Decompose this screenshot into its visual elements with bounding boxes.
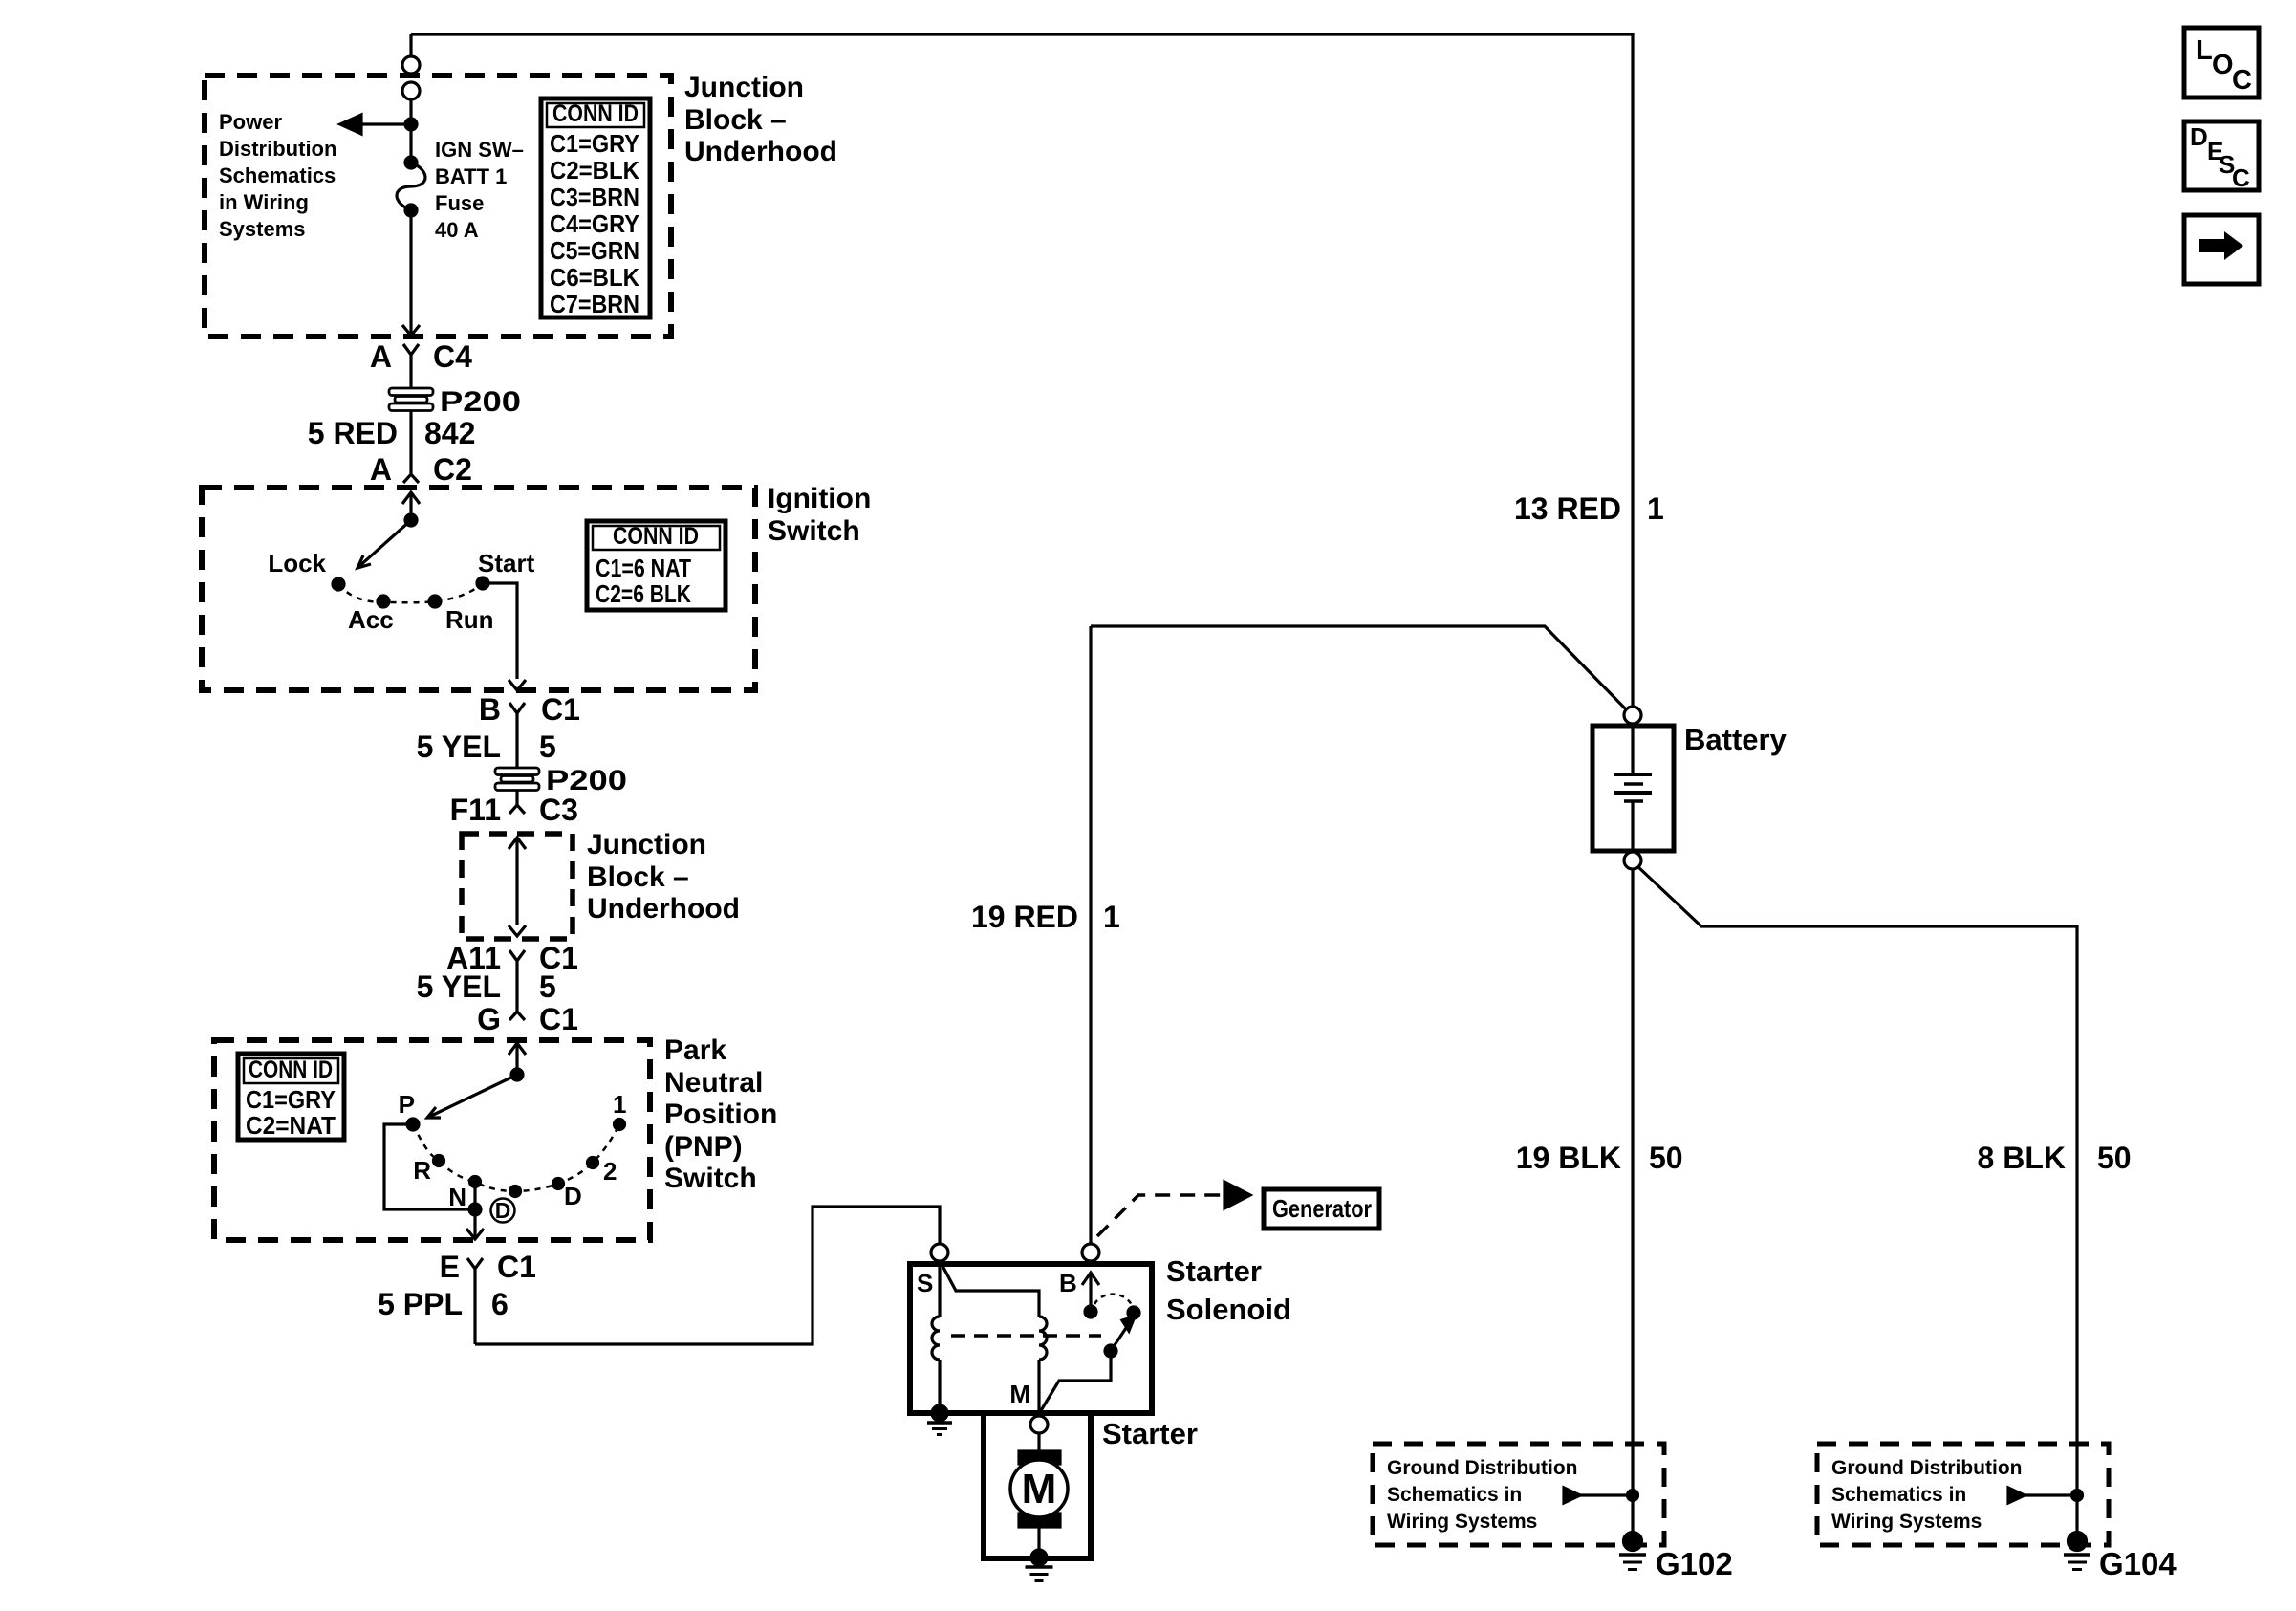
terminal B circle — [1082, 1244, 1099, 1261]
svg-text:5 PPL: 5 PPL — [378, 1287, 463, 1321]
wire: fuse to connector C4 with exit arrow — [402, 210, 420, 336]
svg-text:C: C — [2232, 163, 2250, 192]
label contact 2 — [603, 1157, 617, 1186]
svg-text:6: 6 — [491, 1287, 509, 1321]
contact 2 — [588, 1158, 598, 1168]
label Battery — [1684, 723, 1787, 756]
wire: battery negative to G102 — [1631, 869, 1634, 1534]
contact P — [407, 1119, 419, 1130]
wire: entry arrow into PNP switch — [509, 1043, 526, 1075]
CONN ID table PNP text — [246, 1056, 336, 1140]
svg-text:C1=GRY: C1=GRY — [246, 1085, 336, 1114]
label contact Lock — [268, 549, 326, 577]
label G102 — [1656, 1546, 1733, 1581]
label terminal M — [1009, 1380, 1030, 1408]
svg-text:Solenoid: Solenoid — [1166, 1293, 1291, 1326]
svg-text:in Wiring: in Wiring — [219, 190, 309, 214]
svg-text:C6=BLK: C6=BLK — [550, 263, 639, 292]
svg-text:Distribution: Distribution — [219, 137, 336, 161]
generator box — [1264, 1189, 1379, 1229]
wire: M to motor — [1037, 1433, 1040, 1452]
label ground distribution left — [1387, 1457, 1577, 1533]
svg-text:Generator: Generator — [1272, 1194, 1372, 1223]
wire: entry arrow into ignition switch — [402, 492, 420, 520]
starter ground — [1026, 1550, 1053, 1581]
label wire 5 RED 842 — [308, 416, 476, 450]
CONN ID table junction block text — [550, 100, 639, 318]
connector B C1 fork — [509, 703, 525, 769]
node: power distribution tap with arrow — [340, 115, 417, 134]
wire: motor to starter ground — [1037, 1527, 1040, 1553]
svg-text:D: D — [564, 1182, 582, 1210]
wire: PNP exit arrow — [466, 1209, 484, 1239]
solenoid switch lever — [1040, 1317, 1135, 1412]
svg-text:Block –: Block – — [684, 104, 787, 136]
contact mid drive — [510, 1186, 521, 1197]
label ground distribution right — [1831, 1457, 2022, 1533]
svg-text:Switch: Switch — [664, 1163, 757, 1194]
svg-text:B: B — [1059, 1269, 1077, 1297]
label Junction Block Underhood top — [684, 72, 837, 167]
label Generator — [1272, 1194, 1372, 1223]
label Park Neutral Position PNP Switch — [664, 1034, 777, 1194]
dashed generator tap arrow — [1097, 1182, 1250, 1236]
label Starter Solenoid — [1166, 1254, 1291, 1326]
contact Run — [429, 596, 441, 607]
contact D — [553, 1179, 564, 1189]
CONN ID table PNP switch — [238, 1054, 344, 1140]
connector E C1 fork — [467, 1258, 483, 1344]
svg-text:Block –: Block – — [587, 861, 689, 893]
label connector A C2 — [370, 452, 472, 487]
contact R — [434, 1156, 444, 1166]
svg-text:C5=GRN: C5=GRN — [550, 236, 639, 265]
ground G104 symbol — [2064, 1533, 2090, 1570]
svg-text:19 RED: 19 RED — [971, 900, 1078, 934]
svg-text:Starter: Starter — [1166, 1254, 1262, 1288]
label P200 second — [546, 765, 627, 796]
label G104 — [2099, 1546, 2177, 1581]
label circled D — [495, 1198, 511, 1223]
wire: Start contact to connector C1 with exit arrow — [483, 583, 526, 690]
svg-text:Systems: Systems — [219, 217, 306, 241]
svg-text:C7=BRN: C7=BRN — [550, 290, 639, 318]
starter box — [984, 1416, 1091, 1558]
svg-text:Junction: Junction — [684, 72, 804, 103]
label contact 1 — [613, 1090, 626, 1119]
label connector G C1 — [477, 1002, 578, 1036]
svg-text:P: P — [399, 1090, 415, 1119]
svg-text:D: D — [2190, 122, 2208, 151]
svg-text:C2: C2 — [433, 452, 472, 487]
svg-text:Junction: Junction — [587, 829, 706, 860]
svg-text:Ground Distribution: Ground Distribution — [1831, 1457, 2022, 1479]
connector A11 C1 fork — [509, 950, 525, 1012]
battery box — [1592, 726, 1674, 851]
svg-text:A: A — [370, 452, 392, 487]
label wire 19 BLK 50 — [1516, 1141, 1683, 1175]
svg-text:Ignition: Ignition — [768, 483, 871, 514]
svg-text:1: 1 — [1647, 491, 1664, 526]
label connector A11 C1 — [446, 941, 578, 975]
svg-text:C1: C1 — [497, 1250, 536, 1284]
svg-text:2: 2 — [603, 1157, 617, 1186]
label wire 5 PPL 6 — [378, 1287, 509, 1321]
svg-text:Acc: Acc — [348, 605, 394, 634]
svg-text:O: O — [2212, 50, 2234, 80]
svg-text:Lock: Lock — [268, 549, 326, 577]
label IGN SW-BATT 1 Fuse 40 A — [435, 138, 524, 242]
svg-text:C2=NAT: C2=NAT — [246, 1111, 336, 1140]
svg-text:1: 1 — [1103, 900, 1120, 934]
svg-text:Park: Park — [664, 1034, 726, 1066]
DESC button — [2184, 121, 2259, 190]
connector F11 C3 fork — [509, 805, 525, 814]
svg-text:Position: Position — [664, 1099, 777, 1130]
svg-text:BATT 1: BATT 1 — [435, 164, 507, 188]
svg-text:1: 1 — [613, 1090, 626, 1119]
wire: P-N bracket — [384, 1124, 481, 1215]
svg-text:C1: C1 — [539, 1002, 578, 1036]
svg-text:13 RED: 13 RED — [1514, 491, 1621, 526]
svg-text:C2=BLK: C2=BLK — [550, 156, 639, 185]
svg-text:Wiring Systems: Wiring Systems — [1387, 1511, 1537, 1533]
svg-text:5 RED: 5 RED — [308, 416, 398, 450]
CONN ID table ignition switch — [587, 521, 726, 610]
PNP switch dashed box — [214, 1040, 650, 1240]
svg-text:G: G — [477, 1002, 501, 1036]
svg-text:M: M — [1009, 1380, 1030, 1408]
svg-text:P200: P200 — [440, 386, 521, 418]
label connector E C1 — [440, 1250, 536, 1284]
wire: 19 RED horizontal and diagonal to battery — [1091, 626, 1627, 710]
svg-text:40 A: 40 A — [435, 218, 479, 242]
connector A C2 fork — [403, 474, 419, 483]
solenoid hold-in coil — [932, 1261, 940, 1407]
label motor M — [1022, 1466, 1057, 1513]
dashed arc ignition positions — [338, 583, 483, 602]
solenoid right fixed contact — [1128, 1307, 1139, 1318]
starter solenoid box — [910, 1264, 1152, 1413]
svg-text:Schematics in: Schematics in — [1831, 1484, 1966, 1506]
svg-text:M: M — [1022, 1466, 1057, 1513]
svg-text:CONN ID: CONN ID — [613, 523, 699, 550]
svg-text:Wiring Systems: Wiring Systems — [1831, 1511, 1982, 1533]
label contact Start — [478, 549, 535, 577]
svg-text:C3=BRN: C3=BRN — [550, 183, 639, 211]
label wire 8 BLK 50 — [1978, 1141, 2132, 1175]
wire: P200 to connector C2 — [409, 411, 412, 473]
svg-text:Schematics: Schematics — [219, 163, 336, 187]
svg-text:IGN SW–: IGN SW– — [435, 138, 524, 162]
starter motor M — [1010, 1451, 1068, 1527]
label wire 19 RED 1 — [971, 900, 1120, 934]
terminal M circle — [1030, 1416, 1048, 1433]
CONN ID table junction block — [541, 98, 650, 317]
ground distribution tap arrow right — [2008, 1488, 2083, 1503]
LOC button — [2184, 28, 2259, 98]
label DESC button — [2190, 122, 2250, 192]
solenoid coil ground — [927, 1405, 952, 1435]
svg-text:Power: Power — [219, 110, 282, 134]
svg-text:Run: Run — [445, 605, 494, 634]
ground distribution tap arrow left — [1564, 1488, 1638, 1503]
wire: P200 to connector C3 — [515, 791, 518, 805]
fuse IGN SW-BATT 1 40 A — [397, 157, 425, 216]
svg-text:5: 5 — [539, 729, 556, 764]
wire: top battery feed bus — [411, 34, 1633, 707]
dashed arc PNP positions — [413, 1124, 619, 1191]
label Junction Block Underhood small — [587, 829, 740, 925]
svg-text:(PNP): (PNP) — [664, 1131, 743, 1163]
svg-text:50: 50 — [1649, 1141, 1683, 1175]
label Ignition Switch — [768, 483, 871, 547]
label wire 5 YEL 5 lower — [417, 969, 556, 1004]
svg-text:Underhood: Underhood — [684, 136, 837, 167]
svg-text:CONN ID: CONN ID — [249, 1056, 333, 1083]
svg-text:B: B — [479, 692, 501, 727]
contact Acc — [378, 596, 389, 607]
wire through small junction block with arrows — [509, 838, 526, 936]
label contact N — [448, 1183, 466, 1211]
svg-text:Underhood: Underhood — [587, 893, 740, 925]
label contact D — [564, 1182, 582, 1210]
connector circles at junction block feed — [402, 56, 420, 99]
connector A C4 fork — [403, 344, 419, 388]
svg-text:842: 842 — [424, 416, 475, 450]
ground distribution dashed box left — [1373, 1444, 1664, 1545]
label connector A C4 — [370, 339, 472, 374]
label Power Distribution Schematics — [219, 110, 336, 241]
splice P200 second — [495, 768, 539, 791]
next arrow button — [2184, 215, 2259, 284]
label contact Run — [445, 605, 494, 634]
label terminal B — [1059, 1269, 1077, 1297]
svg-text:C2=6 BLK: C2=6 BLK — [596, 579, 691, 608]
svg-text:G104: G104 — [2099, 1546, 2177, 1581]
contact Lock — [333, 578, 344, 590]
svg-text:C1=GRY: C1=GRY — [550, 129, 639, 158]
ground G102 symbol — [1619, 1533, 1646, 1570]
junction block underhood dashed box — [205, 76, 671, 337]
svg-text:Starter: Starter — [1102, 1417, 1198, 1450]
svg-text:C4: C4 — [433, 339, 472, 374]
svg-text:5: 5 — [539, 969, 556, 1004]
label LOC button — [2196, 35, 2252, 96]
svg-text:19 BLK: 19 BLK — [1516, 1141, 1621, 1175]
wire: PNP to starter solenoid S — [475, 1207, 940, 1344]
splice P200 — [389, 388, 433, 411]
svg-text:C3: C3 — [539, 793, 578, 827]
label contact P — [399, 1090, 415, 1119]
contact Start — [477, 577, 488, 589]
svg-text:C1=6 NAT: C1=6 NAT — [596, 554, 691, 582]
svg-text:Schematics in: Schematics in — [1387, 1484, 1522, 1506]
terminal S circle — [931, 1244, 948, 1261]
label connector F11 C3 — [450, 793, 578, 827]
ignition switch wiper arm — [357, 514, 417, 568]
svg-text:G102: G102 — [1656, 1546, 1733, 1581]
dashed mechanical link — [951, 1334, 1101, 1338]
label contact Acc — [348, 605, 394, 634]
svg-text:C1: C1 — [541, 692, 580, 727]
svg-text:50: 50 — [2097, 1141, 2132, 1175]
contact N — [470, 1177, 481, 1187]
svg-text:L: L — [2196, 35, 2213, 66]
svg-text:5 YEL: 5 YEL — [417, 969, 501, 1004]
svg-text:S: S — [917, 1269, 933, 1297]
svg-text:C4=GRY: C4=GRY — [550, 209, 639, 238]
battery cell symbol — [1614, 724, 1652, 849]
svg-text:Neutral: Neutral — [664, 1067, 763, 1099]
svg-text:A: A — [370, 339, 392, 374]
label contact R — [413, 1156, 431, 1185]
svg-text:R: R — [413, 1156, 431, 1185]
wire: battery negative to G104 — [1637, 866, 2077, 1534]
junction block underhood small dashed box — [462, 834, 573, 939]
wire: B entry arrow and left fixed contact — [1082, 1273, 1099, 1317]
label connector B C1 — [479, 692, 580, 727]
svg-text:CONN ID: CONN ID — [552, 100, 639, 127]
svg-text:8 BLK: 8 BLK — [1978, 1141, 2066, 1175]
label Starter — [1102, 1417, 1198, 1450]
battery terminal top circle — [1624, 707, 1641, 724]
wire: 19 RED battery to solenoid B — [1089, 626, 1092, 1244]
ignition switch dashed box — [202, 488, 755, 690]
label P200 — [440, 386, 521, 418]
label wire 5 YEL 5 upper — [417, 729, 556, 764]
svg-text:Fuse: Fuse — [435, 191, 484, 215]
svg-text:Battery: Battery — [1684, 723, 1787, 756]
wire: stub below connector circles — [409, 99, 412, 157]
svg-text:N: N — [448, 1183, 466, 1211]
dashed arc solenoid contacts — [1094, 1295, 1132, 1305]
svg-text:E: E — [440, 1250, 460, 1284]
svg-text:F11: F11 — [450, 793, 501, 827]
label terminal S — [917, 1269, 933, 1297]
svg-text:Start: Start — [478, 549, 535, 577]
circled D indicator — [491, 1199, 515, 1223]
svg-text:Switch: Switch — [768, 515, 860, 547]
contact 1 — [615, 1120, 625, 1130]
label wire 13 RED 1 — [1514, 491, 1664, 526]
svg-text:D: D — [495, 1198, 511, 1223]
svg-text:Ground Distribution: Ground Distribution — [1387, 1457, 1577, 1479]
PNP wiper arm — [427, 1069, 523, 1118]
svg-text:5 YEL: 5 YEL — [417, 729, 501, 764]
CONN ID table ignition text — [596, 523, 699, 608]
solenoid pull-in coil — [942, 1264, 1047, 1415]
svg-text:C: C — [2232, 65, 2252, 96]
ground distribution dashed box right — [1817, 1444, 2109, 1545]
connector G C1 fork — [509, 1012, 525, 1020]
battery terminal bottom circle — [1624, 852, 1641, 869]
